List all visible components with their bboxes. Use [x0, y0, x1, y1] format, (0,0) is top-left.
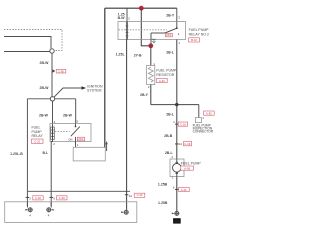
eyelet fuel pump ground: [172, 211, 179, 216]
connector marker 14 on main wire: [175, 142, 192, 147]
wire from left feed lower: [4, 51, 50, 53]
svg-text:1.25B: 1.25B: [158, 182, 168, 186]
svg-text:B-W: B-W: [118, 16, 126, 20]
wire from left feed upper: [4, 37, 51, 49]
connector label A-09 fuel pump: [181, 166, 194, 170]
connector marker 24 right ground: [125, 193, 145, 198]
wire B-L stub into ground box: [50, 191, 52, 207]
wire arrow to ignition system: [54, 86, 86, 97]
connector marker 6 mid ground: [49, 196, 67, 201]
fuel pump relay box: [50, 124, 91, 142]
label FUEL PUMP RESISTOR: [156, 69, 177, 77]
wire right branch to relay pin 5: [75, 99, 77, 124]
wire junction bus horizontal right part: [55, 98, 76, 100]
wire 2B-W vertical to junction node: [51, 53, 53, 96]
svg-text:A-50: A-50: [206, 111, 212, 115]
connector label C-22 fuel pump relay: [32, 139, 44, 144]
wire junction to resistor: [150, 46, 152, 66]
svg-text:14: 14: [179, 142, 183, 146]
fuel pump resistor: [147, 66, 155, 85]
fuel pump relay no.2 dashed link: [119, 29, 167, 31]
wire pin 4 down to junction: [150, 40, 152, 46]
wire left stub into ground box: [26, 191, 28, 207]
svg-text:24: 24: [129, 194, 133, 198]
wire resistor down: [150, 85, 152, 105]
connector marker 1 on main wire: [173, 120, 187, 127]
svg-text:RELAY NO.2: RELAY NO.2: [189, 32, 209, 36]
svg-text:10: 10: [175, 220, 179, 224]
svg-text:B-16: B-16: [191, 38, 197, 42]
label OFF relay no.2 state: [165, 33, 172, 37]
wire 1.25L coil ground from relay no.2: [126, 40, 128, 210]
svg-text:2B-L: 2B-L: [166, 113, 175, 117]
svg-text:C-30: C-30: [59, 196, 65, 200]
wire coil to ground B-L: [51, 140, 52, 192]
fuel pump inspection connector box: [195, 118, 201, 123]
fuel pump relay coil: [51, 127, 55, 140]
connector label A-30 resistor: [156, 78, 167, 82]
svg-text:A-09: A-09: [184, 166, 190, 170]
fuel pump relay no.2 box: [118, 22, 186, 40]
svg-text:SYSTEM: SYSTEM: [87, 88, 101, 92]
wire 2B-Y switch feed: [176, 8, 178, 21]
pin 4 fuel pump relay no.2 green: [152, 39, 155, 43]
fuel pump relay dashed link: [55, 131, 70, 133]
fuel pump motor symbol: [173, 159, 182, 177]
label FUEL PUMP RELAY NO.2: [189, 28, 210, 36]
wire 1.25 B-W coil feed: [126, 8, 128, 21]
label FUEL PUMP INSPECTION CONNECTOR: [193, 123, 214, 133]
svg-text:OFF: OFF: [166, 33, 172, 37]
label FUEL PUMP RELAY: [32, 126, 44, 138]
connector label B-16X relay no.2: [189, 38, 200, 42]
svg-text:C-18: C-18: [180, 122, 186, 126]
wire dashed option line top-left: [4, 30, 62, 51]
wire relay pin1 to check box: [75, 142, 77, 148]
fuel pump relay no.2 coil: [126, 22, 129, 40]
svg-text:C-33: C-33: [137, 193, 143, 197]
fuel pump relay no.2 switch: [151, 22, 178, 40]
fuel pump relay switch: [71, 124, 80, 142]
svg-text:C-32: C-32: [35, 196, 41, 200]
svg-text:2B-W: 2B-W: [40, 61, 50, 65]
wire node to fuel pump relay pin 4: [52, 101, 54, 127]
wire horizontal to inspection connector: [151, 104, 199, 106]
connector label A-50 inspection: [204, 111, 215, 115]
node connector circle A: [50, 49, 54, 53]
junction dot main wire: [175, 103, 178, 106]
eyelet ground left: [25, 202, 32, 218]
wire ground bus bottom: [27, 190, 130, 192]
svg-text:A-33: A-33: [181, 188, 187, 192]
connector marker 6 on ground wire: [173, 185, 189, 191]
svg-text:2B-B: 2B-B: [164, 134, 173, 138]
svg-text:CONNECTOR: CONNECTOR: [193, 130, 214, 134]
svg-text:2B-W: 2B-W: [40, 86, 50, 90]
wire junction bus horizontal: [27, 98, 50, 100]
eyelet ground right: [121, 210, 128, 215]
node connector circle B on junction bus: [50, 97, 54, 101]
connector marker C-90 on 2B-W wire: [53, 69, 66, 73]
svg-text:C-19: C-19: [184, 142, 190, 146]
wire fuel pump to ground: [176, 177, 178, 212]
junction red dot top: [139, 6, 144, 11]
svg-text:2B-Y: 2B-Y: [166, 13, 175, 17]
label ON OFF relay state: [68, 137, 84, 141]
svg-text:ON: ON: [68, 137, 72, 141]
svg-text:2B-Y: 2B-Y: [140, 93, 149, 97]
wire main feed relay no.2 pin1 down: [176, 40, 178, 160]
connector marker 2 left ground: [26, 196, 44, 201]
junction red dot resistor: [148, 43, 153, 48]
svg-text:RESISTOR: RESISTOR: [156, 73, 174, 77]
svg-text:C-22: C-22: [34, 140, 40, 144]
wire main top feed line: [105, 7, 177, 9]
wire long feed from top to check box: [104, 8, 106, 147]
svg-text:1.25B: 1.25B: [158, 201, 168, 205]
svg-text:1.25L: 1.25L: [116, 52, 126, 56]
wire drop to inspection connector: [198, 105, 200, 118]
arrow marker at check box entry: [105, 141, 107, 151]
svg-text:RELAY: RELAY: [32, 134, 44, 138]
svg-text:2B-W: 2B-W: [39, 114, 49, 118]
svg-text:A-30: A-30: [159, 79, 165, 83]
svg-text:FUEL PUMP: FUEL PUMP: [181, 162, 202, 166]
eyelet ground mid: [46, 202, 53, 218]
svg-text:OFF: OFF: [78, 137, 84, 141]
junction check box: [73, 147, 105, 161]
fuel pump box: [170, 159, 184, 177]
svg-text:B-L: B-L: [42, 151, 49, 155]
svg-text:C-90: C-90: [58, 69, 64, 73]
svg-text:1.25L-B: 1.25L-B: [10, 152, 23, 156]
label IGNITION SYSTEM: [87, 85, 103, 93]
label 1.25 B-W: [118, 13, 126, 20]
ground box: [5, 202, 137, 223]
wire branch from red dot down: [141, 8, 149, 46]
ground point marker black box: [173, 218, 181, 223]
svg-text:2B-L: 2B-L: [166, 50, 175, 54]
svg-text:2Y-B: 2Y-B: [134, 53, 142, 57]
svg-text:2B-W: 2B-W: [63, 114, 73, 118]
wire left branch 1.25L-B down: [26, 99, 28, 192]
